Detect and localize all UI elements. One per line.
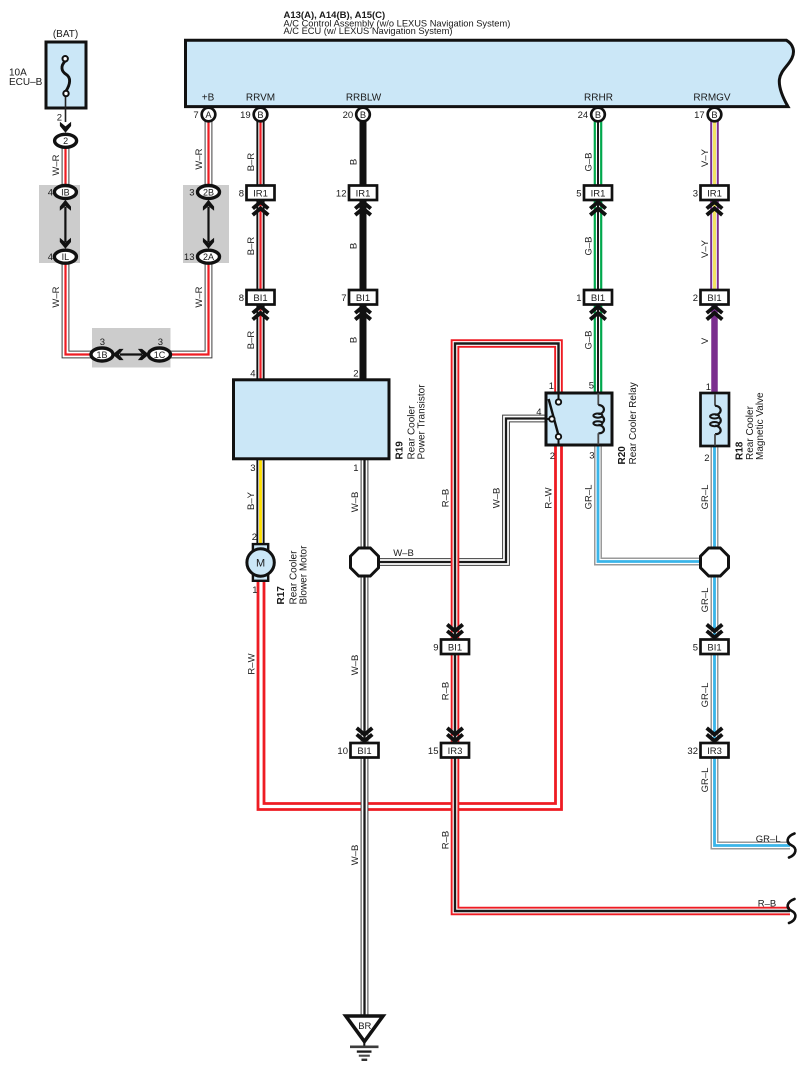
svg-text:GR–L: GR–L: [700, 588, 711, 613]
relay R20 rear cooler relay: [536, 381, 612, 463]
wire B-R RRVM to R19 pin 4: [256, 118, 264, 382]
connector BI1 pin 7: [341, 290, 377, 305]
svg-text:3: 3: [589, 451, 594, 462]
connector BI1 pin 5: [693, 640, 729, 655]
chevron arrows up: [707, 307, 723, 320]
svg-text:BI1: BI1: [356, 293, 370, 304]
connector block IB/IL background: [39, 185, 80, 263]
svg-text:32: 32: [687, 746, 698, 757]
svg-text:R17: R17: [276, 586, 287, 605]
svg-text:2: 2: [550, 451, 555, 462]
junction junction W-B: [351, 548, 379, 576]
svg-text:A: A: [205, 110, 212, 120]
svg-text:5: 5: [576, 189, 581, 200]
arrow left: [113, 349, 124, 360]
solenoid R18 rear cooler magnetic valve: [701, 382, 730, 464]
svg-text:BI1: BI1: [357, 746, 371, 757]
connector IR1 pin 3: [693, 186, 729, 201]
svg-text:G–B: G–B: [584, 152, 595, 171]
wire B-Y R19 pin 3 to motor: [256, 457, 264, 546]
svg-text:IR3: IR3: [707, 746, 722, 757]
svg-text:R–B: R–B: [758, 899, 776, 910]
chevron arrows down: [357, 728, 373, 741]
svg-text:B–R: B–R: [246, 153, 257, 172]
svg-text:R18: R18: [734, 441, 745, 460]
svg-text:17: 17: [694, 110, 705, 121]
svg-text:8: 8: [239, 189, 244, 200]
svg-text:R–B: R–B: [441, 489, 452, 507]
pin 19 B (RRVM): [240, 108, 267, 122]
svg-text:RRBLW: RRBLW: [346, 93, 382, 104]
svg-text:3: 3: [189, 188, 194, 199]
svg-text:B: B: [711, 110, 717, 120]
wire R-W motor to relay pin 2: [261, 444, 559, 807]
connector IR1 pin 5: [576, 186, 612, 201]
chevron arrows up: [253, 307, 269, 320]
svg-text:BI1: BI1: [591, 293, 605, 304]
svg-text:19: 19: [240, 110, 251, 121]
svg-text:4: 4: [48, 188, 53, 199]
connector IR1 pin 12: [336, 186, 377, 201]
svg-text:M: M: [256, 558, 265, 570]
svg-text:R20: R20: [617, 446, 628, 465]
svg-text:B: B: [360, 110, 366, 120]
svg-text:2: 2: [252, 532, 257, 543]
connector 2: [55, 134, 77, 147]
wire W-R 2B to +B pin A: [205, 118, 213, 187]
wire link 1B-1C: [120, 353, 142, 355]
connector 2B: [198, 186, 220, 199]
svg-text:24: 24: [578, 110, 589, 121]
svg-text:3: 3: [250, 463, 255, 474]
svg-text:V–Y: V–Y: [700, 239, 711, 258]
svg-text:IB: IB: [61, 187, 70, 197]
wire W-R fuse to connector 2: [62, 147, 70, 187]
wire W-B R19 pin 1 to junction: [361, 457, 369, 562]
connector block 1B/1C background: [92, 328, 171, 368]
chevron arrows up: [590, 202, 606, 215]
chevron arrows up: [355, 202, 371, 215]
svg-text:1: 1: [549, 381, 554, 392]
svg-text:B: B: [595, 110, 601, 120]
svg-text:4: 4: [536, 407, 541, 418]
svg-text:2: 2: [63, 136, 68, 146]
connector BI1 pin 10: [337, 743, 378, 758]
svg-text:B–R: B–R: [246, 237, 257, 256]
wire G-B RRHR to relay pin 5: [594, 118, 603, 395]
svg-text:5: 5: [589, 381, 594, 392]
motor R17 rear cooler blower motor: [247, 532, 274, 596]
pin 20 B (RRBLW): [343, 108, 370, 122]
svg-text:RRHR: RRHR: [584, 93, 613, 104]
svg-text:B: B: [349, 337, 360, 343]
svg-text:2: 2: [693, 293, 698, 304]
wire B RRBLW to R19 pin 2: [360, 118, 367, 382]
svg-text:IL: IL: [62, 252, 70, 262]
svg-text:B–R: B–R: [246, 331, 257, 350]
svg-text:IR1: IR1: [591, 189, 606, 200]
wire W-R IL to 1B: [66, 263, 93, 355]
svg-text:W–B: W–B: [350, 655, 361, 676]
connector 1C: [149, 348, 171, 361]
connector BI1 pin 2: [693, 290, 729, 305]
svg-text:5: 5: [693, 643, 698, 654]
label R17 rear cooler blower motor: [276, 545, 309, 605]
pin 24 B (RRHR): [578, 108, 605, 122]
junction junction GR-L: [701, 548, 729, 576]
chevron arrows up: [590, 307, 606, 320]
connector IB: [54, 186, 76, 199]
svg-text:20: 20: [343, 110, 354, 121]
svg-text:4: 4: [250, 369, 255, 380]
chevron arrows up: [707, 202, 723, 215]
net R-B continuation break: [788, 899, 796, 923]
wire V BI1 to R18 pin 1: [711, 304, 718, 395]
svg-text:15: 15: [428, 746, 439, 757]
wire W-R 1C to 2A: [170, 263, 209, 355]
wire GR-L relay pin 3 to junction: [598, 444, 702, 562]
svg-text:GR–L: GR–L: [700, 768, 711, 793]
svg-text:R–W: R–W: [544, 487, 555, 508]
svg-text:2: 2: [353, 369, 358, 380]
connector IR3 pin 32: [687, 743, 728, 758]
svg-text:2A: 2A: [203, 252, 214, 262]
svg-text:W–B: W–B: [350, 845, 361, 866]
arrow down: [60, 238, 71, 249]
connector 1B: [91, 348, 113, 361]
svg-text:4: 4: [48, 252, 53, 263]
svg-text:+B: +B: [202, 93, 215, 104]
svg-text:V–Y: V–Y: [700, 148, 711, 167]
connector IR1 pin 8: [239, 186, 275, 201]
svg-text:B: B: [257, 110, 263, 120]
svg-text:W–R: W–R: [51, 154, 62, 175]
svg-text:(BAT): (BAT): [53, 29, 78, 40]
fuse 10A ECU-B: [9, 29, 86, 124]
svg-text:BR: BR: [358, 1021, 371, 1032]
svg-text:IR3: IR3: [448, 746, 463, 757]
svg-text:1: 1: [252, 585, 257, 596]
svg-text:V: V: [700, 337, 711, 344]
svg-text:GR–L: GR–L: [584, 485, 595, 510]
label R20 rear cooler relay: [617, 382, 639, 464]
svg-text:G–B: G–B: [584, 330, 595, 349]
svg-text:2: 2: [704, 453, 709, 464]
wire W-B junction to relay pin 4: [365, 419, 547, 563]
svg-text:Rear Cooler Relay: Rear Cooler Relay: [628, 382, 639, 464]
svg-text:8: 8: [239, 293, 244, 304]
svg-text:R–B: R–B: [441, 682, 452, 700]
svg-text:BI1: BI1: [253, 293, 267, 304]
connector IL: [54, 250, 76, 263]
svg-text:Power Transistor: Power Transistor: [416, 384, 427, 460]
wire V-Y RRMGV to BI1: [710, 118, 719, 304]
connector block 2B/2A background: [183, 185, 229, 263]
A/C control assembly / ECU box: [186, 10, 794, 107]
chevron arrows down: [447, 728, 463, 741]
svg-text:G–B: G–B: [584, 236, 595, 255]
svg-text:A/C ECU (w/ LEXUS Navigation S: A/C ECU (w/ LEXUS Navigation System): [284, 26, 453, 36]
svg-text:1: 1: [576, 293, 581, 304]
svg-text:W–B: W–B: [492, 488, 503, 509]
svg-text:9: 9: [433, 643, 438, 654]
wire GR-L junction to right edge: [715, 562, 791, 846]
label R19 rear cooler power transistor: [395, 384, 428, 460]
arrow up: [203, 200, 214, 211]
transistor R19 rear cooler power transistor: [234, 369, 390, 475]
svg-text:GR–L: GR–L: [700, 485, 711, 510]
arrow up: [60, 200, 71, 211]
svg-text:W–B: W–B: [393, 548, 414, 559]
svg-text:Magnetic Valve: Magnetic Valve: [755, 392, 766, 460]
svg-text:10: 10: [337, 746, 348, 757]
chevron arrows down: [447, 625, 463, 638]
svg-text:R19: R19: [395, 441, 406, 460]
wire W-B junction to ground: [361, 562, 369, 1017]
arrow right: [138, 349, 149, 360]
svg-text:2B: 2B: [203, 187, 214, 197]
chevron arrows down: [707, 728, 723, 741]
connector BI1 pin 8: [239, 290, 275, 305]
svg-text:B–Y: B–Y: [246, 491, 257, 510]
svg-text:1C: 1C: [154, 350, 166, 360]
svg-text:RRMGV: RRMGV: [693, 93, 731, 104]
connector 2A: [198, 250, 220, 263]
svg-text:BI1: BI1: [707, 643, 721, 654]
svg-text:IR1: IR1: [253, 189, 268, 200]
arrow down: [203, 238, 214, 249]
svg-text:2: 2: [57, 113, 62, 124]
chevron arrows up: [253, 202, 269, 215]
svg-text:W–R: W–R: [194, 286, 205, 307]
svg-text:W–B: W–B: [350, 492, 361, 513]
connector IR3 pin 15: [428, 743, 469, 758]
svg-text:GR–L: GR–L: [700, 683, 711, 708]
svg-text:BI1: BI1: [448, 643, 462, 654]
pin 7 A (+B): [193, 108, 215, 122]
svg-text:GR–L: GR–L: [756, 834, 781, 845]
wire R-B relay pin 1 to right edge: [455, 344, 790, 912]
connector BI1 pin 9: [433, 640, 469, 655]
label R18 rear cooler magnetic valve: [734, 392, 766, 460]
svg-text:3: 3: [693, 189, 698, 200]
svg-text:ECU–B: ECU–B: [9, 77, 43, 88]
wire link IB-IL: [64, 207, 66, 242]
svg-text:1B: 1B: [96, 350, 107, 360]
arrow down: [60, 122, 71, 133]
svg-text:1: 1: [353, 463, 358, 474]
connector BI1 pin 1: [576, 290, 612, 305]
svg-text:13: 13: [184, 252, 195, 263]
svg-text:12: 12: [336, 189, 347, 200]
svg-text:7: 7: [341, 293, 346, 304]
svg-text:R–B: R–B: [441, 831, 452, 849]
svg-text:RRVM: RRVM: [246, 93, 275, 104]
ground BR body ground: [346, 1016, 383, 1060]
pin 17 B (RRMGV): [694, 108, 721, 122]
svg-text:W–R: W–R: [194, 148, 205, 169]
chevron arrows up: [355, 307, 371, 320]
svg-text:R–W: R–W: [247, 653, 258, 674]
svg-text:IR1: IR1: [356, 189, 371, 200]
svg-text:Blower Motor: Blower Motor: [298, 545, 309, 605]
svg-text:1: 1: [706, 382, 711, 393]
svg-text:W–R: W–R: [51, 286, 62, 307]
wire link 2B-2A: [207, 207, 209, 242]
wire GR-L R18 pin 2 to junction: [711, 444, 719, 562]
svg-text:BI1: BI1: [707, 293, 721, 304]
svg-text:7: 7: [193, 110, 198, 121]
net GR-L continuation break: [788, 834, 796, 858]
svg-text:B: B: [349, 159, 360, 165]
svg-text:IR1: IR1: [707, 189, 722, 200]
chevron arrows down: [707, 625, 723, 638]
svg-text:B: B: [349, 243, 360, 249]
